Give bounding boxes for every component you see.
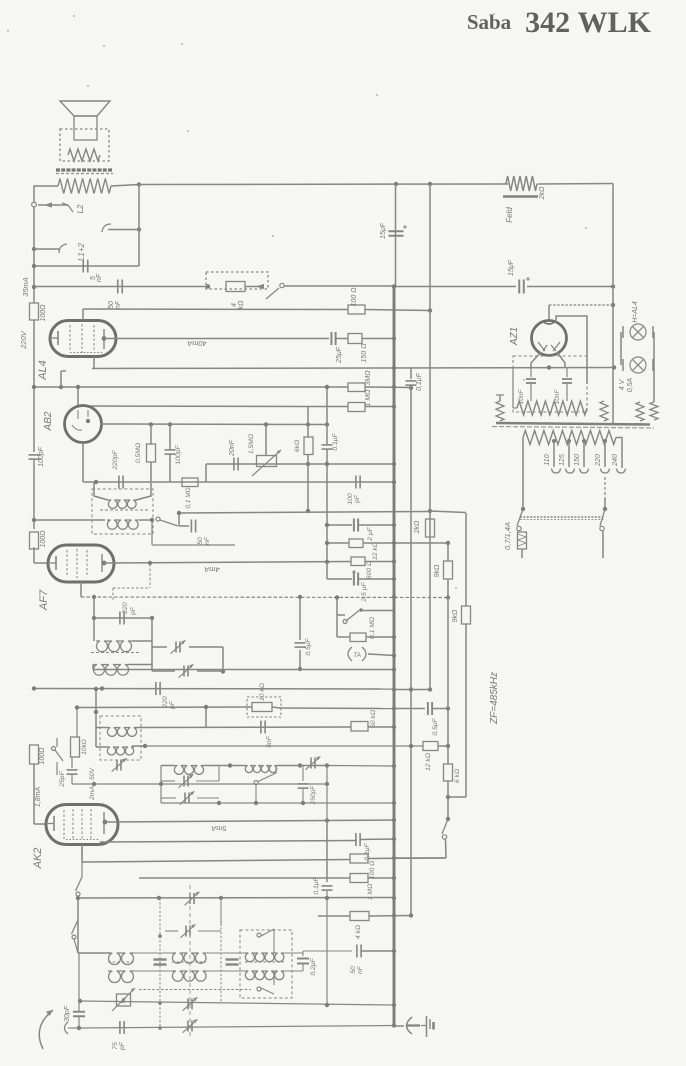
svg-text:2 μF: 2 μF: [367, 526, 374, 541]
resistor 9kOhm b: [462, 606, 471, 624]
filter wire top: [78, 952, 110, 954]
node bus 727: [392, 725, 396, 729]
svg-text:50V: 50V: [89, 766, 96, 780]
osc coil 2: [174, 766, 204, 775]
svg-text:5nF: 5nF: [266, 735, 273, 748]
slider arrow: [44, 202, 52, 207]
wire y618: [94, 617, 152, 619]
capacitor 15uF bus: [389, 230, 404, 232]
resistor lamp right zig: [600, 401, 608, 421]
svg-text:H=AL4: H=AL4: [632, 301, 639, 323]
wire lamp left link: [620, 332, 622, 365]
wire y286 end: [527, 286, 613, 288]
osc coil bottom: [107, 747, 134, 755]
wire x327 osc: [326, 766, 328, 821]
wire 600 to bus: [365, 561, 394, 563]
node 179-513: [177, 511, 181, 515]
svg-text:0,5μF: 0,5μF: [432, 717, 439, 735]
capacitor 250pF: [302, 766, 304, 782]
osc coil top: [107, 728, 137, 737]
svg-text:0,7/1,4A: 0,7/1,4A: [503, 522, 512, 550]
svg-text:600 Ω: 600 Ω: [366, 561, 373, 579]
node bus 464: [392, 462, 396, 466]
wire x448 mid: [447, 579, 449, 598]
dashed box 4k: [206, 272, 268, 289]
capacitor 5nF: [82, 260, 84, 273]
svg-text:220: 220: [122, 602, 129, 615]
wire x613: [612, 184, 614, 424]
svg-text:2,5 μF: 2,5 μF: [361, 582, 368, 603]
wire y286 right: [284, 285, 396, 287]
wire 25uF-150: [336, 338, 348, 340]
heater winding zigzag: [517, 401, 587, 415]
node 94-618: [92, 616, 96, 620]
wire primary to node: [111, 185, 139, 187]
resistor 0,1M box: [350, 633, 366, 642]
wire y525: [327, 524, 352, 526]
node bus 597: [392, 595, 396, 599]
node 208: [206, 284, 210, 288]
wire x308 vert: [307, 407, 309, 438]
filter wires 2: [207, 952, 246, 954]
wire AB2 top vert: [77, 387, 79, 406]
node bus 387: [392, 385, 396, 389]
wire sw to bus: [361, 610, 394, 612]
svg-text:5mA: 5mA: [211, 824, 226, 833]
node right vert mid: [137, 227, 141, 231]
node 411-915: [409, 913, 413, 917]
wire bus upper segment: [33, 207, 35, 303]
capacitor 0,5uF 300: [295, 642, 306, 644]
dashed box 10k: [247, 697, 281, 717]
wire AL4 bottom stub: [93, 357, 95, 369]
wire x327 low: [326, 821, 328, 883]
trimmer osc2: [183, 776, 185, 787]
node 78-898: [76, 896, 80, 900]
svg-text:15μF: 15μF: [380, 222, 387, 239]
node bus L1: [32, 247, 36, 251]
svg-text:AF7: AF7: [38, 589, 50, 611]
wire 12k b right: [438, 745, 448, 747]
elcap 25uF: [330, 332, 332, 345]
tube AK2 envelope: [46, 805, 118, 845]
osc wires: [161, 765, 174, 767]
node 411-388: [409, 386, 413, 390]
osc trim wires: [160, 766, 162, 804]
svg-text:nF: nF: [96, 273, 103, 282]
wire pot top: [265, 425, 267, 456]
trimmer gang4: [187, 1021, 189, 1032]
resistor 2kOhm top: [506, 176, 537, 191]
svg-text:100 Ω: 100 Ω: [351, 287, 358, 307]
switch wave: [150, 518, 154, 522]
svg-text:220: 220: [162, 696, 169, 709]
svg-text:0,2μF: 0,2μF: [310, 957, 317, 975]
svg-text:0,1μF: 0,1μF: [416, 372, 423, 391]
filter coil 2a: [172, 953, 206, 963]
node bus 286: [32, 285, 36, 289]
wire filt to 50nF: [302, 951, 304, 953]
svg-text:0,1μF: 0,1μF: [332, 432, 339, 450]
loudspeaker voice-coil box: [74, 116, 97, 140]
svg-text:220: 220: [595, 454, 602, 467]
svg-text:12 kΩ: 12 kΩ: [425, 753, 432, 771]
wire 01M wires: [337, 636, 350, 638]
svg-text:220V: 220V: [19, 330, 28, 350]
svg-text:150 Ω: 150 Ω: [361, 343, 368, 363]
wire 1M to bus: [368, 877, 394, 879]
wire y1005: [80, 1001, 394, 1005]
wire hook to bus: [34, 248, 59, 250]
node bus 368: [392, 366, 396, 370]
node loop left: [32, 264, 36, 268]
node 327-562: [325, 560, 329, 564]
node 448-746: [446, 744, 450, 748]
field-coil dashed box: [60, 129, 109, 161]
svg-text:342 WLK: 342 WLK: [525, 6, 652, 39]
wire x337: [336, 598, 338, 638]
wire y951: [303, 950, 352, 952]
filter cap mid2: [226, 958, 239, 960]
resistor lamp left zig: [496, 401, 504, 421]
node 152-618: [150, 616, 154, 620]
wire y286 to 15uF: [396, 286, 516, 288]
mains primary zigzag: [523, 431, 616, 445]
node 159-898: [157, 896, 161, 900]
wire sw-cap: [179, 525, 189, 527]
filter wires 1: [134, 952, 172, 954]
specks: [7, 30, 9, 32]
capacitor 0,1uF x411: [406, 380, 417, 382]
wire HT bus x394: [395, 184, 397, 286]
node bus 286b: [392, 284, 396, 288]
capacitor 50nF mid: [190, 520, 192, 533]
node 411-689: [409, 687, 413, 691]
AF7 grid dashes: [66, 550, 68, 577]
svg-text:0,5MΩ: 0,5MΩ: [135, 443, 142, 463]
wire 01uF bus: [360, 838, 394, 841]
mains left vert: [522, 438, 524, 510]
lamp H2: [630, 357, 646, 373]
wire y482: [83, 481, 394, 483]
AB2 internals: [77, 410, 79, 419]
IF2 core dash: [91, 652, 140, 654]
tube AF7 envelope: [48, 545, 114, 582]
wire bus 460-529: [33, 459, 35, 529]
svg-text:220pF: 220pF: [112, 450, 119, 471]
wire 6k to 797: [447, 781, 449, 819]
AZ1 anode2 wire: [556, 316, 587, 384]
resistor 0,5MOhm: [147, 444, 156, 462]
wire x78 a: [77, 896, 79, 953]
resistor 100 Ohm bus1: [30, 303, 39, 320]
AK2 anode pin: [103, 820, 108, 825]
wire 4k to x411: [369, 915, 411, 918]
node 327-525: [325, 523, 329, 527]
transformer core bar: [56, 168, 113, 171]
node 94-597: [92, 595, 96, 599]
wire y858 stub: [394, 857, 446, 859]
AL4 anode pin: [102, 336, 107, 341]
wire y727: [135, 726, 351, 729]
svg-text:50 kΩ: 50 kΩ: [370, 710, 377, 728]
AF7 anode pin: [102, 561, 107, 566]
wire y746: [145, 745, 423, 747]
wire AL4 left-bot: [60, 371, 62, 387]
wire AK2 bot2: [81, 845, 83, 863]
node 308-511: [306, 509, 310, 513]
switch y615: [346, 611, 359, 622]
wire x327 down: [326, 462, 328, 562]
osc coil wires: [95, 689, 97, 747]
resistor 600Ohm: [351, 557, 365, 566]
node bus 820: [392, 818, 396, 822]
fuse 0,7A: [518, 532, 527, 549]
node 613-286: [611, 284, 615, 288]
resistor 10kOhm: [252, 703, 272, 712]
wire trim2 stubs: [165, 930, 178, 932]
tap wires: [553, 441, 555, 467]
node 221-898: [219, 896, 223, 900]
svg-text:20nF: 20nF: [229, 439, 236, 457]
wire TA to bus: [368, 654, 394, 656]
tap dots: [552, 439, 556, 443]
wire osc sw drop: [255, 785, 257, 804]
node 300-597: [298, 595, 302, 599]
node bus 878: [392, 876, 396, 880]
svg-text:50: 50: [350, 966, 357, 974]
wire y784 rail: [72, 783, 327, 785]
svg-text:pF: pF: [354, 494, 361, 504]
filter coil 3b: [245, 971, 284, 980]
capacitor 10nF b: [566, 368, 568, 377]
wire to earth: [394, 1025, 404, 1027]
svg-text:AZ1: AZ1: [509, 327, 520, 346]
node bus 561: [392, 559, 396, 563]
node 96-482: [94, 480, 98, 484]
IF1 core dash: [100, 509, 148, 511]
pot 1,5MOhm: [257, 456, 277, 467]
node x430 top: [428, 182, 432, 186]
switch filter1: [257, 933, 261, 937]
wire AK2 anode: [105, 820, 394, 822]
link line x160: [159, 898, 161, 1028]
wire screen to x430: [365, 310, 430, 311]
svg-text:AB2: AB2: [43, 411, 54, 431]
capacitor 0,1uF 358: [355, 833, 357, 846]
mains switch left: [517, 509, 523, 526]
wire 100pF wires: [169, 425, 171, 450]
elcap 2uF: [353, 519, 355, 532]
wire y689: [394, 689, 430, 691]
node bus 655: [392, 653, 396, 657]
svg-text:Saba: Saba: [467, 10, 512, 34]
wire 05M bot: [150, 462, 152, 482]
svg-text:50: 50: [108, 301, 115, 309]
svg-text:1,8mA: 1,8mA: [35, 787, 42, 808]
node bus 525: [392, 523, 396, 527]
svg-text:100Ω: 100Ω: [40, 304, 47, 322]
switch osc: [254, 781, 258, 785]
trimmer IF2a: [175, 642, 177, 653]
wire AF7 anode y562: [104, 562, 351, 564]
resistor 4kOhm: [226, 282, 245, 292]
IF1 wires: [94, 483, 108, 500]
svg-text:nF: nF: [357, 965, 364, 974]
fuse lead: [521, 549, 523, 558]
wire AZ1 top: [548, 305, 550, 320]
capacitor 0,5uF mid: [427, 702, 429, 715]
svg-text:100: 100: [347, 493, 354, 505]
trimmer osc: [116, 760, 118, 771]
capacitor 50nF 951: [356, 945, 358, 958]
node 430-689: [428, 687, 432, 691]
AL4 top stub: [82, 309, 84, 321]
capacitor 20nF: [233, 458, 235, 471]
capacitor 100pF series482: [355, 476, 357, 489]
wire 150 to bus: [362, 338, 394, 340]
resistor 6kOhm ab2: [304, 437, 313, 455]
wire AB2 diode y424: [101, 423, 327, 426]
svg-text:Feld: Feld: [505, 207, 514, 223]
node bus 543: [392, 541, 396, 545]
svg-text:1,5MΩ: 1,5MΩ: [248, 434, 255, 454]
wire y669: [93, 669, 394, 671]
hook L2 tap: [102, 224, 111, 232]
node bus top: [394, 182, 398, 186]
wire cath bus: [359, 578, 394, 580]
wire 206 drop: [205, 707, 207, 728]
resistor 1MOhm grid: [348, 403, 365, 412]
svg-text:4 V: 4 V: [619, 378, 626, 390]
svg-text:40mA: 40mA: [187, 339, 207, 348]
wire lamp left: [499, 395, 501, 401]
resistor 2kOhm mid: [426, 519, 435, 537]
node bus 1005: [392, 1003, 396, 1007]
wire 12k bus: [363, 542, 448, 544]
node 613-305: [611, 303, 615, 307]
filter coil 2b: [172, 971, 206, 981]
node 327-464: [325, 462, 329, 466]
IF2 shield dashes: [149, 564, 151, 588]
svg-text:100pF: 100pF: [175, 445, 182, 465]
node 308-424: [306, 422, 310, 426]
wire 50nF right: [178, 513, 180, 526]
wire y1028: [79, 1026, 394, 1029]
filter coil 3a: [245, 953, 284, 962]
capacitor 220pF af7: [119, 612, 121, 625]
wire y597: [81, 596, 448, 599]
trimmer gang3: [187, 999, 189, 1010]
elcap 2,5uF: [353, 573, 355, 586]
svg-text:0,5μF: 0,5μF: [305, 637, 312, 655]
node 337-597: [335, 595, 339, 599]
filter cap mid1: [154, 958, 167, 960]
filter core dashes: [108, 961, 134, 963]
node 170-424: [168, 422, 172, 426]
AK2 grid dashes: [63, 810, 65, 839]
svg-text:6kΩ: 6kΩ: [294, 440, 301, 452]
switch bottom right: [442, 819, 448, 834]
arrow contact: [256, 284, 264, 289]
node 34-387: [32, 385, 36, 389]
speaker field zigzag: [68, 149, 100, 161]
capacitor 5nF osc: [260, 721, 262, 734]
IF2 coil top: [96, 641, 132, 652]
svg-text:15μF: 15μF: [508, 259, 515, 276]
wire y464: [206, 463, 394, 465]
node 605-509: [603, 507, 607, 511]
svg-text:1 MΩ: 1 MΩ: [365, 389, 372, 407]
node 308-464: [306, 462, 310, 466]
svg-text:pF: pF: [130, 606, 137, 616]
mains switch right: [600, 509, 605, 526]
wire bus to AK2: [33, 764, 35, 790]
wire 1M to bus: [365, 406, 394, 408]
trimmer osc3: [184, 793, 186, 804]
wire L2 slider: [38, 204, 68, 206]
capacitor 0,2uF filt: [302, 953, 304, 956]
wire AF7 bot stub: [80, 582, 82, 597]
node bus 915: [392, 913, 396, 917]
tube AB2 envelope: [65, 406, 102, 443]
trimmer IF2b: [183, 666, 185, 677]
node bus 803: [392, 801, 396, 805]
svg-text:0,5A: 0,5A: [627, 377, 634, 392]
resistor 12kOhm 543: [349, 539, 363, 548]
svg-text:10 kΩ: 10 kΩ: [259, 683, 266, 701]
wire x448 lower: [447, 598, 449, 765]
osc coil 3: [245, 766, 277, 773]
IF1 coil top: [108, 500, 136, 508]
ground symbol: [426, 1016, 428, 1037]
node 327-543: [325, 541, 329, 545]
lamp H1 bars: [622, 326, 624, 338]
resistor 3MOhm: [348, 383, 365, 392]
node 523-509: [521, 507, 525, 511]
antenna: [39, 1010, 53, 1049]
svg-text:kΩ: kΩ: [238, 300, 245, 310]
hook L1 tap: [59, 244, 67, 253]
capacitor 15uF right: [518, 280, 520, 294]
svg-text:pF: pF: [119, 1041, 126, 1051]
wire AK2 bot1: [100, 841, 357, 843]
wire x411 long: [410, 385, 412, 915]
svg-text:TA: TA: [353, 652, 361, 659]
resistor lamp far zig: [636, 402, 644, 421]
filter bottom rail: [139, 989, 251, 991]
resistor 50kOhm: [351, 722, 368, 732]
resistor 12kOhm b: [423, 742, 438, 751]
svg-text:50: 50: [197, 537, 204, 545]
earth clamp: [407, 1017, 413, 1034]
svg-text:0,1μF: 0,1μF: [313, 876, 320, 894]
AL4 grid dashes: [69, 325, 71, 352]
wire 3M to 411: [365, 386, 411, 389]
svg-text:30pF: 30pF: [64, 1005, 71, 1022]
filter wires 3: [284, 952, 303, 954]
switch band2: [72, 920, 79, 934]
svg-text:pF: pF: [169, 700, 176, 710]
resistor 0,1MOhm 482: [182, 478, 198, 487]
wire 50nF bus: [361, 950, 394, 952]
wire y803 to bus: [161, 802, 394, 804]
svg-text:100Ω: 100Ω: [39, 747, 46, 765]
node 448-819: [446, 817, 450, 821]
IF2 coil bottom: [93, 665, 129, 676]
wire y407: [78, 405, 308, 408]
resistor 100Ohm bus2: [30, 532, 39, 549]
